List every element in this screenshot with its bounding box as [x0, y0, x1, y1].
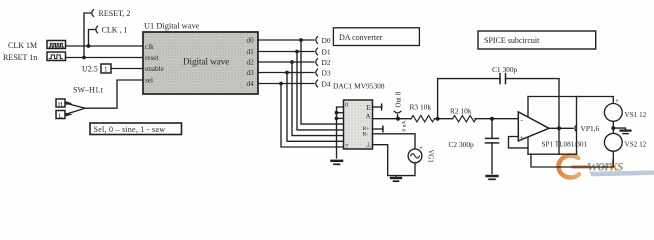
ground bus for DAC pins 0-2: [335, 107, 344, 158]
svg-text:d2: d2: [247, 59, 255, 67]
wire op-amp output: [549, 124, 599, 133]
wire top rail to VS1: [528, 97, 613, 104]
DAC block: [344, 100, 373, 151]
svg-text:U1 Digital wave: U1 Digital wave: [144, 22, 200, 31]
wire d1 to DAC pin4: [297, 52, 344, 130]
node feedback junction: [436, 117, 440, 121]
svg-text:VS2 12: VS2 12: [625, 140, 647, 148]
label SPICE subcircuit box: [478, 31, 596, 49]
svg-text:d0: d0: [247, 37, 255, 45]
svg-text:R-: R-: [363, 131, 369, 137]
wire d0 with connector D0: [258, 36, 331, 45]
svg-text:d1: d1: [247, 48, 255, 56]
svg-text:E: E: [367, 104, 371, 112]
svg-text:L: L: [59, 112, 63, 119]
svg-text:R3 10k: R3 10k: [410, 103, 432, 112]
note box Sel: 0 - sine, 1 - saw: [90, 123, 182, 135]
node C2 junction: [490, 117, 494, 121]
svg-text:DA converter: DA converter: [339, 33, 383, 42]
wire feedback vertical at output: [558, 79, 560, 155]
subcircuit boundary box: [528, 97, 577, 155]
svg-text:D0: D0: [322, 36, 331, 45]
wire d4 to DAC pin7: [281, 84, 344, 148]
svg-text:enable: enable: [145, 65, 164, 73]
ground: [487, 176, 498, 179]
capacitor C1 300p: [492, 65, 518, 84]
svg-text:d4: d4: [247, 80, 255, 88]
svg-text:reset: reset: [145, 54, 159, 62]
svg-text:CLK , 1: CLK , 1: [102, 26, 128, 35]
svg-text:SW–H1.t: SW–H1.t: [73, 86, 104, 95]
svg-text:SP1 TL081/301: SP1 TL081/301: [542, 141, 588, 149]
wire R- to VG1 top: [372, 134, 415, 149]
source VS2 12: [604, 133, 646, 151]
svg-text:Out 8: Out 8: [395, 91, 403, 107]
wire U2.5 to enable pin: [111, 68, 143, 70]
wire d2 to DAC pin5: [292, 62, 344, 136]
resistor R2 10k: [450, 106, 476, 122]
ground at mid-supply: [613, 128, 630, 134]
wire d3 with connector D3: [258, 68, 331, 77]
ground: [391, 176, 401, 182]
svg-text:+: +: [419, 144, 423, 152]
wire CLK source to clk pin: [66, 45, 144, 47]
svg-text:sel: sel: [145, 77, 153, 85]
svg-text:H: H: [58, 101, 63, 108]
svg-text:d3: d3: [247, 69, 255, 77]
U1 digital wave block: [143, 22, 258, 95]
wire bottom rail: [531, 151, 613, 167]
connector Out 8 (vertical): [394, 91, 402, 118]
wire COM pin to bottom rail: [372, 145, 415, 176]
switch box H: [56, 99, 65, 108]
wire d4 with connector D4: [258, 79, 331, 88]
switch arrows to common node: [65, 101, 85, 116]
wire R2 to op-amp input: [475, 118, 518, 120]
wire C1 to output node: [506, 78, 560, 80]
svg-text:RESET, 2: RESET, 2: [99, 9, 131, 18]
wire d0 to DAC pin3: [301, 40, 344, 124]
svg-text:VG1: VG1: [427, 150, 434, 163]
node A output junction: [396, 117, 400, 121]
svg-text:D1: D1: [322, 47, 331, 56]
node mid-supply junction: [611, 121, 615, 133]
svg-text:U2.5: U2.5: [82, 65, 98, 74]
wire sel net: [85, 80, 143, 108]
svg-text:RESET 1n: RESET 1n: [3, 53, 37, 62]
connector CLK,1: [87, 26, 128, 48]
svg-text:D4: D4: [322, 79, 331, 88]
svg-text:A: A: [366, 112, 371, 120]
svg-text:VP1,6: VP1,6: [581, 124, 600, 133]
voltage source RESET 1n: [3, 52, 66, 62]
svg-text:1: 1: [104, 65, 108, 73]
pin E stub with open-end bar: [372, 104, 381, 110]
ground: [332, 161, 343, 165]
source VG1: [408, 144, 433, 163]
wire R3 to R2: [435, 118, 453, 120]
wire noninverting input loop: [509, 137, 529, 148]
wire d2 with connector D2: [258, 58, 331, 67]
watermark e-works: [558, 156, 654, 178]
capacitor C2 300p: [449, 119, 499, 174]
svg-text:R2 10k: R2 10k: [450, 106, 472, 115]
svg-text:Sel, 0 – sine, 1 - saw: Sel, 0 – sine, 1 - saw: [94, 125, 166, 134]
svg-text:SPICE subcircuit: SPICE subcircuit: [484, 36, 540, 45]
wire RESET source to reset pin: [66, 57, 144, 59]
wire feedback up and over: [438, 79, 500, 119]
svg-text:C1 300p: C1 300p: [492, 65, 518, 74]
wire d1 with connector D1: [258, 47, 331, 56]
label DA converter box: [333, 28, 419, 46]
svg-text:C2 300p: C2 300p: [449, 140, 475, 149]
source VS1 12: [604, 97, 646, 122]
svg-text:VS1 12: VS1 12: [625, 111, 647, 119]
switch box L: [56, 111, 65, 120]
svg-text:+: +: [520, 134, 524, 142]
resistor R3 10k: [410, 103, 435, 122]
svg-text:0 uA: 0 uA: [402, 121, 408, 132]
svg-text:CLK 1M: CLK 1M: [8, 41, 37, 50]
wire d3 to DAC pin6: [287, 73, 344, 142]
voltage source CLK 1M: [8, 41, 66, 51]
svg-text:⊥: ⊥: [366, 142, 372, 149]
svg-text:clk: clk: [145, 43, 154, 51]
connector RESET,2: [82, 9, 130, 59]
op-amp U3: [518, 112, 549, 142]
svg-text:D2: D2: [322, 58, 331, 67]
pin R+ stub with open-end bar: [372, 126, 383, 131]
svg-text:DAC1 MV95308: DAC1 MV95308: [333, 82, 385, 91]
svg-text:Digital wave: Digital wave: [183, 57, 229, 67]
svg-text:D3: D3: [322, 68, 331, 77]
constant U2.5: [82, 64, 111, 74]
wire A output to R3: [372, 118, 411, 120]
